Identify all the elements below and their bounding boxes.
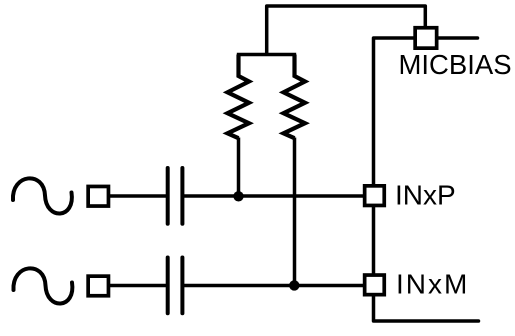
capacitor C1 xyxy=(168,168,183,224)
wire: V2 pad to C2 xyxy=(110,284,169,288)
junction node M xyxy=(289,280,299,290)
wire: R1 lead to node P xyxy=(237,138,241,197)
wire: MICBIAS pad to input bus xyxy=(374,38,414,185)
terminal pad of V2 xyxy=(88,276,108,296)
terminal pad MICBIAS xyxy=(415,28,437,48)
wire: C2 to INxM pad xyxy=(182,284,364,288)
wire: INxM bottom stub xyxy=(374,295,479,321)
svg-text:MICBIAS: MICBIAS xyxy=(399,49,512,80)
resistor R2 xyxy=(284,55,306,139)
svg-text:INxP: INxP xyxy=(395,180,456,211)
wire: V1 pad to C1 xyxy=(110,194,169,198)
wire: R2 lead to node M xyxy=(293,138,297,286)
junction node P xyxy=(233,191,243,201)
wire: MICBIAS right stub xyxy=(438,36,477,40)
wire: C1 to INxP pad xyxy=(182,194,364,198)
terminal pad INxP xyxy=(365,186,385,206)
resistor R1 xyxy=(228,55,250,139)
svg-text:INxM: INxM xyxy=(396,269,469,300)
wire: tap to MICBIAS pad xyxy=(267,6,426,56)
wire: resistor parallel bar xyxy=(237,53,296,57)
AC source V2 xyxy=(13,268,72,303)
terminal pad INxM xyxy=(365,275,385,295)
capacitor C2 xyxy=(168,258,183,314)
wire: INxP to INxM xyxy=(372,206,376,275)
AC source V1 xyxy=(13,178,72,213)
terminal pad of V1 xyxy=(88,186,108,206)
